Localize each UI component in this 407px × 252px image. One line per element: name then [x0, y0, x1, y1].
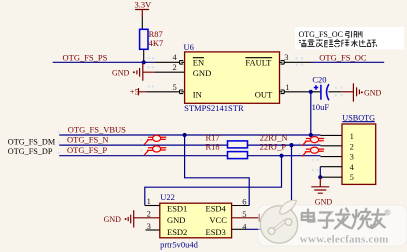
svg-text:2: 2 [173, 62, 177, 72]
ESD chip U22 prtr5v0u4d [160, 192, 232, 249]
power 3.3V [135, 0, 153, 17]
pin 1 clip [279, 90, 284, 94]
node junction pin5/gnd [318, 175, 322, 179]
node junction VBUS/U22 [183, 133, 187, 137]
svg-text:ESD3: ESD3 [206, 227, 226, 237]
svg-text:+5: +5 [130, 86, 139, 96]
svg-text:3: 3 [284, 52, 288, 62]
svg-text:OTG_FS_OC: OTG_FS_OC [319, 52, 367, 62]
svg-text:1: 1 [285, 82, 289, 92]
wire VBUS vertical [310, 92, 312, 135]
pin 5 clip [180, 90, 185, 94]
svg-text:prtr5v0u4d: prtr5v0u4d [160, 239, 199, 249]
svg-text:3: 3 [350, 152, 354, 162]
pin wire USBOTG 2 [321, 145, 343, 147]
node junction VBUS/C20 [309, 133, 313, 137]
pin 3 clip [279, 61, 284, 65]
svg-text:OTG_FS_DM: OTG_FS_DM [8, 137, 56, 146]
svg-text:OTG_FS_PS: OTG_FS_PS [63, 52, 108, 62]
svg-text:2: 2 [147, 209, 151, 219]
node junction OUT [309, 90, 313, 94]
svg-text:6: 6 [242, 196, 246, 206]
svg-text:22RJ_P: 22RJ_P [260, 141, 287, 151]
node junction N/ESD3 [289, 143, 293, 147]
svg-text:STMPS2141STR: STMPS2141STR [184, 103, 244, 113]
svg-text:OTG_FS_P: OTG_FS_P [67, 145, 107, 155]
squiggle marker N right [302, 137, 324, 146]
wire [329, 91, 342, 93]
svg-text:3.3V: 3.3V [135, 0, 153, 10]
power +5 (U22 VCC) [232, 214, 271, 224]
svg-text:R18: R18 [206, 141, 220, 151]
annotation text frame [295, 27, 404, 50]
svg-text:4: 4 [242, 221, 247, 231]
pin wire USBOTG 3 [321, 156, 343, 158]
wire OTG_FS_PS [53, 61, 155, 63]
wire P to ESD1 [145, 156, 282, 206]
svg-text:ESD2: ESD2 [167, 227, 187, 237]
node junction P/ESD1 [279, 154, 283, 158]
svg-text:GND: GND [364, 88, 382, 97]
connector USBOTG [342, 113, 376, 184]
svg-text:OUT: OUT [255, 89, 273, 99]
pin U22.3 wire [146, 229, 160, 231]
wire OTG_FS_P left [59, 155, 227, 157]
svg-text:U6: U6 [184, 42, 194, 52]
wire OTG_FS_N left [59, 144, 227, 146]
svg-text:GND: GND [104, 215, 122, 224]
ground GND (U6 pin2) [112, 64, 155, 81]
pin wire USBOTG 1 [321, 134, 343, 136]
svg-text:ESD4: ESD4 [206, 204, 227, 214]
svg-text:2: 2 [350, 141, 354, 151]
svg-text:5: 5 [173, 82, 177, 92]
pin 1 wire OUT [284, 91, 320, 93]
node junction R87/EN [142, 60, 146, 64]
wire gnd drop [319, 167, 321, 178]
wire N to ESD3 [246, 145, 292, 229]
svg-text:IN: IN [193, 89, 202, 99]
svg-text:GND: GND [167, 215, 185, 225]
capacitor C20 10uF [312, 74, 330, 112]
annotation CJK line1 [346, 31, 362, 37]
svg-text:4K7: 4K7 [149, 38, 164, 48]
pin 4 wire [155, 61, 180, 63]
ground GND (C20) [342, 83, 382, 101]
squiggle marker N left [144, 135, 166, 144]
svg-text:OTG_FS_OC: OTG_FS_OC [299, 30, 343, 39]
svg-text:EN: EN [193, 57, 204, 67]
pin 3 wire [284, 61, 311, 63]
resistor R17 [206, 133, 248, 148]
wire OTG_FS_N right [248, 144, 321, 146]
resistor R18 [206, 141, 248, 158]
wire [143, 49, 145, 62]
wire OTG_FS_OC [311, 61, 384, 63]
svg-text:OTG_FS_VBUS: OTG_FS_VBUS [68, 125, 126, 135]
pin U22.4 wire [232, 228, 246, 230]
wire [141, 17, 143, 29]
pin 4 clip [180, 61, 185, 65]
svg-text:5: 5 [350, 172, 354, 182]
pin 2 wire [155, 71, 185, 73]
svg-text:4: 4 [350, 162, 355, 172]
svg-text:10uF: 10uF [312, 102, 330, 112]
pin 5 wire [147, 91, 180, 93]
wire VBUS to ESD4 [185, 135, 250, 206]
svg-text:USBOTG: USBOTG [342, 113, 375, 122]
svg-text:3: 3 [147, 221, 151, 231]
power +5 (U6 pin5) [130, 86, 147, 96]
wire OTG_FS_VBUS [59, 134, 320, 136]
svg-text:www.elecfans.com: www.elecfans.com [300, 233, 389, 245]
svg-text:OTG_FS_DP: OTG_FS_DP [8, 147, 53, 156]
svg-text:VCC: VCC [209, 215, 227, 225]
pin U22.1 wire [145, 205, 160, 207]
ground GND (U22 pin2) [104, 210, 160, 227]
annotation CJK line2 [299, 39, 377, 47]
svg-text:OTG_FS_N: OTG_FS_N [67, 135, 109, 145]
op-amp U6 STMPS2141STR [184, 42, 280, 113]
svg-text:1: 1 [147, 196, 151, 206]
squiggle marker P left [144, 146, 166, 155]
resistor R87 [140, 29, 164, 49]
watermark [258, 200, 407, 246]
svg-text:FAULT: FAULT [245, 57, 272, 67]
svg-text:C20: C20 [312, 74, 326, 84]
svg-text:GND: GND [112, 68, 130, 77]
svg-text:1: 1 [350, 131, 354, 141]
svg-text:U22: U22 [160, 192, 175, 202]
wire OTG_FS_P right [248, 155, 321, 157]
svg-text:ESD1: ESD1 [167, 204, 187, 214]
ground GND (USBOTG) [311, 177, 332, 206]
pin wire USBOTG 5 [320, 176, 342, 178]
pin wire USBOTG 4 [320, 166, 342, 168]
pin U22.6 wire [232, 205, 250, 207]
squiggle marker P right [302, 147, 324, 156]
svg-text:GND: GND [193, 68, 211, 78]
